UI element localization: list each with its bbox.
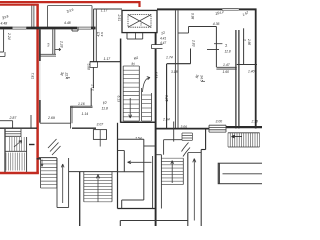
exit corridor long up arrow [193, 159, 196, 221]
red outline inner top line [0, 4, 39, 6]
apt1 small box [0, 51, 4, 53]
svg-text:3.00: 3.00 [216, 119, 223, 123]
porch mini steps [182, 132, 192, 134]
wall corner [91, 27, 96, 30]
south outer wall stub [120, 220, 188, 222]
window top-right [222, 8, 238, 10]
window w3 [77, 26, 91, 28]
south wall y128 left part [155, 128, 209, 130]
spiral wall 1 [123, 151, 125, 172]
apt1 door tick a [29, 144, 35, 146]
svg-text:6.25: 6.25 [164, 95, 168, 102]
svg-text:4.48: 4.48 [1, 22, 8, 26]
svg-text:12.8: 12.8 [225, 50, 231, 54]
corridor B up arrow [61, 164, 64, 203]
stairs C treads [84, 173, 112, 175]
apt1 stairs right wall [26, 137, 28, 172]
vestibule bottom wall [118, 138, 144, 140]
svg-text:11.8: 11.8 [102, 106, 108, 110]
wall y48.5 [207, 49, 219, 51]
svg-text:3.07: 3.07 [97, 123, 104, 127]
svg-text:1.47: 1.47 [223, 63, 230, 67]
svg-text:1.14: 1.14 [82, 112, 89, 116]
party wall faint middle [39, 61, 41, 100]
hall wall zigzag top [70, 105, 92, 107]
apt1 niche box [0, 120, 13, 122]
stairs D up arrow [171, 161, 174, 184]
party wall x176 double [174, 10, 176, 128]
apt1 door tick b [37, 158, 42, 160]
svg-text:1.40: 1.40 [248, 70, 255, 74]
svg-text:3.06: 3.06 [181, 125, 188, 129]
corridor B walls [56, 158, 58, 208]
elevator X cross [128, 15, 151, 28]
niche walls [178, 32, 189, 34]
svg-text:Зу: Зу [195, 75, 199, 79]
duct box [90, 62, 97, 68]
apt1 closet wall [3, 29, 5, 52]
svg-text:1.16: 1.16 [78, 102, 85, 106]
svg-text:2.66: 2.66 [247, 38, 251, 45]
apt1 stair arrow [14, 141, 22, 148]
apt1 stair flight lower treads [5, 153, 7, 171]
hall door line [40, 122, 71, 124]
red outline end tick [138, 1, 140, 7]
tambour box [93, 130, 106, 140]
red apartment outline top line [0, 1, 141, 3]
elevator vestibule [126, 33, 128, 39]
svg-text:2.64: 2.64 [162, 117, 170, 121]
stairwell west wall [120, 39, 122, 123]
svg-text:7.81: 7.81 [31, 73, 35, 80]
exterior east wall [255, 9, 257, 129]
right steps left arrow [232, 135, 243, 138]
svg-text:2.51: 2.51 [117, 14, 121, 22]
svg-text:4.48: 4.48 [64, 21, 71, 25]
svg-text:2: 2 [243, 38, 247, 41]
room C bottom wall [237, 64, 257, 66]
svg-text:3.18: 3.18 [171, 70, 178, 74]
stairs D treads [161, 157, 183, 159]
svg-text:4.36: 4.36 [213, 22, 220, 26]
landing step line [144, 145, 156, 147]
exterior wall top-left [0, 27, 13, 30]
right entrance steps treads [227, 133, 229, 147]
elevator shaft outer box [122, 10, 157, 32]
corridor threshold [188, 152, 201, 154]
corridor top wall [167, 63, 191, 65]
vestibule east wall [143, 139, 145, 200]
balcony B door notch [72, 30, 78, 32]
party wall apt1/apt2 upper [39, 29, 41, 61]
porch box left [163, 140, 165, 155]
porch door jamb line [173, 122, 175, 142]
apt1 stair flight upper treads [9, 137, 11, 151]
room C west wall [243, 28, 245, 64]
door H connector [152, 44, 163, 46]
spiral jog [118, 150, 125, 152]
south balcony rectangle [218, 163, 264, 184]
tambour divider [99, 130, 101, 147]
south balcony inner line [223, 173, 263, 175]
spiral wall 4 [121, 200, 123, 209]
south wall y128 right part [226, 126, 262, 128]
exit corridor walls [187, 153, 189, 226]
stairwell west wall upper [93, 9, 95, 27]
thick party wall x236.5 [235, 30, 237, 129]
balcony B outline [48, 5, 92, 7]
stairwell bottom wall [121, 121, 156, 123]
stairs C up arrow head [96, 175, 99, 179]
party wall apt1/apt2 lower [39, 100, 41, 123]
apt1 stair landing [20, 129, 22, 137]
south outer wall drop [119, 221, 121, 227]
ramp slashes right [182, 143, 191, 157]
main stairs left flight treads [123, 65, 139, 67]
svg-text:6.13: 6.13 [116, 96, 120, 103]
room B bottom double wall [216, 66, 236, 68]
spiral wall 2 [118, 171, 144, 173]
svg-text:3.17: 3.17 [91, 84, 95, 91]
ramp slashes left [48, 139, 61, 155]
main stairs down arrow [129, 98, 132, 118]
main stairs left edges [122, 66, 124, 121]
wall above tambour [72, 127, 96, 129]
svg-text:2.28: 2.28 [59, 40, 63, 48]
stairwell east wall [155, 33, 157, 45]
wall x190.5 [190, 49, 192, 64]
wardrobe bottom wall [41, 53, 57, 55]
svg-text:2.69: 2.69 [47, 116, 55, 120]
apt2 wardrobe wall [52, 29, 54, 54]
hall wall zigzag vertical [70, 106, 72, 128]
apt1 partition stub [30, 115, 32, 128]
stairs C divider [97, 175, 99, 202]
door mark room B [214, 43, 222, 45]
apt2/lobby wall [93, 27, 95, 62]
svg-text:4.47: 4.47 [160, 41, 166, 45]
svg-text:1.74: 1.74 [166, 56, 173, 60]
stairwell north wall [94, 8, 123, 10]
svg-text:2.24: 2.24 [7, 32, 11, 40]
svg-text:2.18: 2.18 [251, 119, 259, 123]
stairs D landing line [156, 154, 162, 156]
corridor east wall x166 [166, 64, 168, 129]
svg-text:2.83: 2.83 [191, 39, 195, 47]
svg-text:4.41: 4.41 [160, 37, 166, 41]
descent arrow [128, 161, 152, 164]
wall y172 segment [69, 171, 118, 173]
wardrobe door tick [55, 48, 61, 51]
svg-text:4.6: 4.6 [100, 32, 104, 37]
red outline right vertical [36, 4, 39, 174]
stairs A arrow [41, 160, 43, 167]
red outline bottom line [0, 172, 39, 175]
wall corner top-right [239, 8, 257, 10]
porch steps stack [209, 124, 226, 126]
balcony A walls [31, 6, 33, 28]
svg-text:1.60: 1.60 [223, 70, 230, 74]
elevator inner box [128, 15, 151, 28]
main stairs right flight treads [142, 94, 152, 96]
spiral wall 3 [122, 199, 144, 201]
wall seg [26, 27, 77, 30]
svg-text:Зу: Зу [60, 72, 64, 76]
svg-text:1.17: 1.17 [104, 57, 111, 61]
entrance stair hall west wall [117, 123, 119, 209]
wall above stairs A [39, 157, 57, 159]
apt1 stairs left wall [4, 129, 6, 172]
apt2 wall lower [92, 67, 94, 88]
apt1 wall above stairs [0, 127, 37, 129]
svg-text:1.17: 1.17 [101, 8, 108, 12]
spiral wall 5 [152, 156, 154, 209]
outer wall left of stairs C [79, 172, 81, 226]
porch zigzag wall [205, 129, 207, 150]
svg-text:34.5: 34.5 [199, 75, 203, 82]
porch box top [164, 139, 182, 141]
stairs A treads [41, 160, 57, 162]
entrance stair hall bottom wall [118, 208, 156, 210]
svg-text:2.87: 2.87 [9, 116, 18, 120]
lobby/hall wall [90, 61, 121, 63]
right flight curved arrow [143, 77, 151, 92]
room B west wall [215, 27, 217, 68]
window w1 [13, 26, 27, 28]
exterior wall top-right [157, 8, 222, 10]
svg-text:0.98: 0.98 [190, 13, 194, 19]
